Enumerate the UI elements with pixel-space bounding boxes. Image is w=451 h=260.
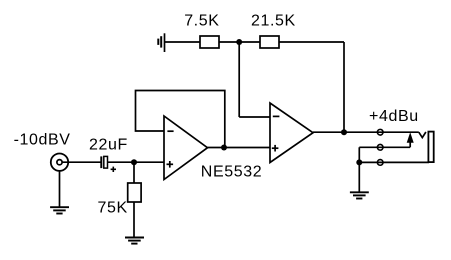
svg-text:75K: 75K: [98, 199, 128, 216]
svg-text:7.5K: 7.5K: [184, 12, 219, 29]
svg-text:+4dBu: +4dBu: [369, 108, 419, 125]
svg-text:22uF: 22uF: [89, 136, 128, 153]
svg-text:-10dBV: -10dBV: [14, 132, 71, 149]
svg-text:21.5K: 21.5K: [251, 12, 296, 29]
svg-text:NE5532: NE5532: [201, 164, 262, 181]
